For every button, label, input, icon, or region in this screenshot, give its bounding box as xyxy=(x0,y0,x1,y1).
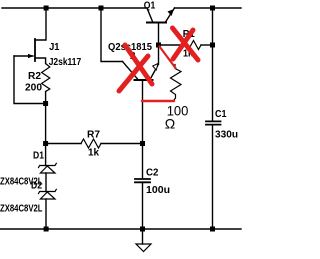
red X over Q2 stroke 2 xyxy=(119,56,148,91)
node dot bottom rail center xyxy=(140,227,145,232)
svg-text:1k: 1k xyxy=(88,148,99,159)
wire Q2 emitter up to node xyxy=(158,45,160,64)
jfet J1 channel bar xyxy=(34,39,36,61)
wire drain column from rail to J1 xyxy=(35,8,46,40)
wire gate feedback loop xyxy=(14,56,46,104)
wire top rail right segment xyxy=(175,7,242,9)
resistor R2 zigzag xyxy=(42,64,50,92)
zener D1 triangle xyxy=(40,166,55,173)
transistor Q2 collector lead xyxy=(123,62,139,80)
wire right column top xyxy=(212,8,214,121)
wire node down to R7 junction xyxy=(45,104,47,144)
red X over Q2 stroke 1 xyxy=(125,45,152,84)
transistor Q1 emitter lead xyxy=(166,8,175,22)
svg-text:C2: C2 xyxy=(146,168,159,179)
wire R1 left xyxy=(159,44,182,46)
capacitor C1 bottom plate xyxy=(206,124,221,126)
transistor Q2 emitter arrowhead (open) xyxy=(153,64,158,71)
capacitor C2 bottom plate xyxy=(135,181,150,183)
svg-text:J1: J1 xyxy=(49,42,60,53)
transistor Q2 base bar xyxy=(135,79,153,81)
wire rail to Q2 collector xyxy=(101,8,123,62)
transistor Q1 collector lead xyxy=(147,8,153,22)
zener D1 cathode bar xyxy=(39,163,57,167)
wire top rail left segment xyxy=(2,7,147,9)
wire R7 right xyxy=(101,143,143,145)
resistor R7 zigzag xyxy=(81,139,101,148)
wire C2 to bottom rail xyxy=(142,183,144,229)
capacitor C1 top plate xyxy=(206,120,221,122)
svg-text:J2sk117: J2sk117 xyxy=(49,57,82,68)
svg-text:100u: 100u xyxy=(146,185,170,196)
wire bottom rail xyxy=(0,228,241,230)
node dot R2 bottom xyxy=(43,101,48,106)
transistor Q1 base lead xyxy=(158,23,160,46)
node dot Q1 base junction xyxy=(156,43,161,48)
svg-text:Q1: Q1 xyxy=(144,0,156,11)
node dot rail-J1 xyxy=(44,6,49,11)
node dot rail-Q2 xyxy=(99,6,104,11)
svg-text:Ω: Ω xyxy=(165,116,175,132)
svg-text:330u: 330u xyxy=(215,130,238,141)
svg-text:R7: R7 xyxy=(87,130,100,141)
transistor Q1 emitter arrowhead xyxy=(168,9,175,16)
node dot bottom rail right xyxy=(210,227,215,232)
red X over R1 stroke 1 xyxy=(173,28,199,60)
resistor R1 zigzag xyxy=(181,41,201,50)
transistor Q2 base lead xyxy=(142,80,144,144)
svg-text:D1: D1 xyxy=(33,151,44,162)
svg-text:C1: C1 xyxy=(215,109,227,120)
zener D2 triangle xyxy=(40,192,55,199)
wire C1 to bottom rail xyxy=(212,126,214,230)
red wire horizontal Q2 base to 100ohm resistor xyxy=(142,100,174,102)
red X over R1 stroke 2 xyxy=(173,30,193,59)
ground triangle xyxy=(136,244,151,252)
resistor 100ohm annotation zigzag xyxy=(171,65,182,101)
svg-text:ZX84C8V2L: ZX84C8V2L xyxy=(0,204,43,215)
transistor Q1 base bar xyxy=(147,22,166,24)
wire C2 column top xyxy=(142,144,144,179)
transistor Q2 emitter lead xyxy=(150,65,158,80)
node dot rail-C1 xyxy=(210,6,215,11)
jfet J1 gate arrowhead xyxy=(28,54,34,58)
node dot R7 right xyxy=(140,141,145,146)
zener D2 cathode bar xyxy=(39,189,57,193)
node dot R7 left xyxy=(43,141,48,146)
node dot bottom rail left xyxy=(44,227,49,232)
jfet J1 gate lead with arrow xyxy=(14,55,33,57)
wire D1 to D2 xyxy=(45,173,47,192)
svg-text:D2: D2 xyxy=(31,181,42,192)
wire R1 right xyxy=(201,44,213,46)
svg-text:200: 200 xyxy=(25,83,42,94)
capacitor C2 top plate xyxy=(135,178,150,180)
red wire diagonal node to 100ohm resistor xyxy=(160,47,176,69)
wire R2 bottom to node xyxy=(45,92,47,104)
wire node to D1 xyxy=(45,144,47,166)
wire D2 to bottom rail xyxy=(45,199,47,229)
svg-text:R2: R2 xyxy=(28,71,41,82)
ground stub xyxy=(142,229,144,244)
jfet J1 source lead xyxy=(35,58,46,64)
node dot R1 right xyxy=(210,43,215,48)
wire R7 left xyxy=(46,143,81,145)
